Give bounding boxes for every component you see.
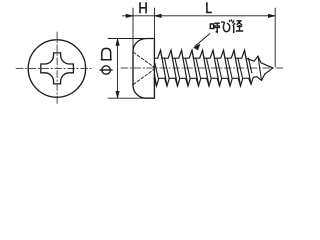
tip cone top [246, 56, 273, 68]
thread top outline [154, 50, 246, 58]
thread bottom outline [154, 78, 253, 87]
label phiD rotated: D glyph [100, 48, 113, 74]
H extension line right / L extension left [153, 8, 155, 38]
hidden recess line lower [133, 69, 154, 85]
kanji 呼 [210, 23, 220, 32]
front view vertical centerline [56, 32, 58, 106]
arrow H left [126, 14, 133, 17]
arrow H right / L left [154, 14, 161, 17]
label H [140, 2, 146, 13]
label L [206, 2, 212, 12]
tip cone bottom [253, 68, 272, 80]
leader line for nominal diameter [195, 34, 210, 47]
hidden recess line upper [133, 52, 154, 67]
side view axis centerline [121, 67, 284, 69]
label phiD rotated: phi glyph [102, 66, 110, 74]
kana bi [221, 20, 232, 32]
dimension line H and L [123, 15, 276, 17]
thread flank lines [154, 50, 251, 86]
side view head outline [133, 39, 154, 99]
L extension line right [274, 8, 276, 66]
leader arrowhead [194, 44, 200, 50]
H extension line left [132, 8, 134, 51]
phiD extension top [108, 38, 147, 40]
tip flank [258, 56, 262, 80]
arrow phiD bottom [116, 91, 119, 98]
arrow phiD top [116, 39, 119, 46]
phillips cross recess [41, 53, 74, 84]
phiD dimension line [117, 39, 119, 99]
front view head outline circle [28, 40, 85, 97]
kanji kei [232, 21, 243, 34]
front view horizontal centerline [16, 67, 93, 69]
phiD extension bottom [108, 97, 147, 99]
thread root helix lines [154, 58, 251, 78]
arrow L right [268, 14, 275, 17]
